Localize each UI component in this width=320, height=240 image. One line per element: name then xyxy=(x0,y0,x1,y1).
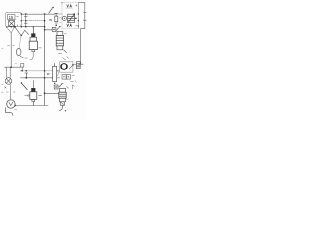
wire bus 30 stub to unit box xyxy=(59,13,63,15)
terminal crossbar at Y xyxy=(79,63,83,65)
wire to connector xyxy=(19,36,20,48)
ground tick xyxy=(15,109,17,111)
connector terminal a on bus xyxy=(24,13,27,21)
coil2 right tick xyxy=(39,94,42,96)
unit box right edge xyxy=(77,3,79,29)
valve Y1 ground xyxy=(59,53,62,55)
node V left xyxy=(6,27,7,28)
needle arrow across resistor xyxy=(68,14,75,23)
wire bus X (third) xyxy=(21,26,44,28)
terminal tick xyxy=(17,15,19,17)
svg-text:w: w xyxy=(49,17,52,22)
node switch pivot xyxy=(21,35,22,36)
relay K1 arm xyxy=(49,8,54,14)
fuse F1 (x-box) xyxy=(9,21,15,27)
node busX/main xyxy=(44,26,46,28)
valve Y1 drain tick xyxy=(64,50,67,53)
ignition coil T1 xyxy=(29,27,37,51)
lamp H1 xyxy=(5,78,12,85)
switch blade S2 xyxy=(15,27,29,35)
gauge needle pivot circle xyxy=(62,16,66,20)
label flag 4 xyxy=(73,85,75,89)
terminal tick left xyxy=(6,91,8,93)
valve Y1 right tick xyxy=(64,33,66,35)
node main/bus5 xyxy=(44,77,46,79)
pivot tick xyxy=(61,17,62,19)
wire bus 5 stub xyxy=(57,77,60,79)
resistor R2 (striped) xyxy=(76,62,80,69)
wire top right corner xyxy=(78,3,84,29)
wire V below switch box xyxy=(7,27,14,32)
node bus4 left xyxy=(21,70,23,72)
switch box terminal dots xyxy=(21,13,23,27)
switch blade S3 (bottom) xyxy=(22,83,28,89)
margin label ticks xyxy=(2,48,4,92)
wire lamp legs xyxy=(7,67,11,77)
valve Y2 ground box xyxy=(59,99,68,111)
valve Y1 connector xyxy=(52,27,56,31)
wire lamp to motor xyxy=(10,85,12,100)
svg-text:15: 15 xyxy=(9,15,14,20)
label box B under sender xyxy=(62,75,70,80)
gauge label VA top xyxy=(66,5,77,9)
valve Y2 body xyxy=(59,88,66,101)
instrument unit box U1 xyxy=(62,3,78,29)
node coil feed xyxy=(33,26,34,27)
coil ground lead xyxy=(30,52,33,60)
motor terminal node xyxy=(15,105,17,107)
wire bus 15 (dashed) xyxy=(21,20,44,22)
wire bottom bus 31 xyxy=(15,105,48,107)
svg-text:w: w xyxy=(47,71,50,76)
terminal crossbar + xyxy=(83,13,86,21)
wire stub box to resistor xyxy=(73,63,77,65)
node main/bus4 xyxy=(44,70,46,72)
gauge label VA bottom xyxy=(67,24,77,27)
node branch xyxy=(44,29,46,31)
label tick b xyxy=(13,45,15,47)
wire dashes from connector xyxy=(20,56,27,58)
valve Y2 arm xyxy=(59,83,63,87)
valve Y1 arm xyxy=(56,26,60,30)
relay K2 contact xyxy=(53,63,59,84)
sender arrow xyxy=(69,65,73,70)
sender motor circle xyxy=(61,64,67,70)
coil side tick right xyxy=(39,47,42,49)
wire coil2 feed xyxy=(32,81,34,89)
node dots on bus X xyxy=(14,26,16,28)
wire main center vertical xyxy=(44,14,46,106)
label tick above bar xyxy=(15,63,17,65)
wire bus 30 (top) xyxy=(21,13,54,15)
resistor R1 (striped) xyxy=(68,14,75,22)
connector X1 (oval) xyxy=(16,48,21,55)
wire left main vertical xyxy=(10,33,12,68)
terminal label 15 xyxy=(8,15,15,20)
coil2 left tick xyxy=(25,95,27,97)
wire bus 5 (mid) xyxy=(20,77,52,79)
terminal tick right xyxy=(13,91,15,93)
valve Y2 right tick xyxy=(66,87,68,89)
relay K1 contact xyxy=(54,13,61,26)
ignition switch box S1 xyxy=(6,13,22,27)
sender unit box U2 xyxy=(60,62,73,72)
wire bus 4 (mid, dashed) xyxy=(20,70,52,72)
label tick a xyxy=(8,45,10,47)
unit edge node dots xyxy=(78,13,79,14)
node on unit edge xyxy=(75,18,77,20)
terminal ticks above bus X xyxy=(17,25,21,27)
label text under sender xyxy=(71,81,77,83)
wire right drop xyxy=(81,29,85,65)
motor M1 xyxy=(7,100,15,108)
node bus15/main xyxy=(44,20,46,22)
wire bus 4 stub xyxy=(57,70,60,72)
lamp ground marks xyxy=(5,87,7,89)
glow plug coil T2 xyxy=(30,88,37,102)
connector terminal b on bus xyxy=(24,21,27,28)
wire branch to valve Y2 xyxy=(45,92,59,94)
valve Y2 connector xyxy=(54,85,58,89)
corner tick U1 xyxy=(61,3,63,4)
node lamp bar xyxy=(10,66,12,68)
node coil2/bus xyxy=(44,92,46,94)
terminal box on bus4 xyxy=(21,64,24,67)
node V right xyxy=(14,27,15,28)
connector terminal on bus4/5 xyxy=(25,70,28,79)
node bus30/main xyxy=(44,13,46,15)
sender ticks above xyxy=(63,57,69,60)
wire branch to valve xyxy=(45,29,53,31)
label tick right of box xyxy=(72,74,74,76)
valve Y1 body xyxy=(56,31,63,49)
ground strap G1 xyxy=(6,108,13,116)
wire lamp bar xyxy=(5,66,21,68)
coil2 to bottom bus xyxy=(32,102,34,106)
